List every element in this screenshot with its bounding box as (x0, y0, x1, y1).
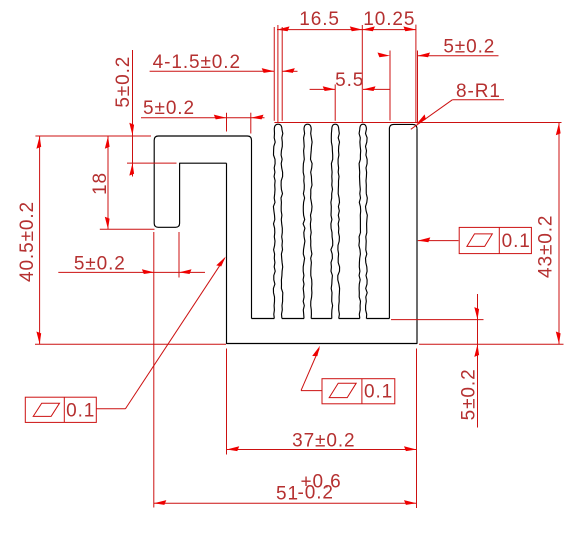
dimension 5±0.2 (right fin width, top right) (378, 37, 499, 123)
svg-text:51: 51 (276, 484, 299, 505)
heatsink clip arm and hook outline (154, 136, 251, 319)
svg-text:10.25: 10.25 (363, 9, 415, 30)
fin 1 (serrated) (273, 124, 282, 318)
dimension 18 (clip hook depth) (90, 136, 155, 229)
svg-text:43±0.2: 43±0.2 (536, 215, 557, 278)
svg-text:5±0.2: 5±0.2 (113, 56, 134, 108)
svg-text:40.5±0.2: 40.5±0.2 (17, 201, 38, 282)
svg-text:18: 18 (90, 172, 111, 195)
svg-text:0.1: 0.1 (364, 381, 393, 402)
fin 3 (serrated) (331, 124, 340, 318)
dimension 5±0.2 (hook width) (58, 232, 205, 508)
channel bottoms (252, 318, 390, 320)
fin 2 (serrated) (303, 124, 312, 318)
dimension 4-1.5±0.2 (fin thickness) (150, 27, 298, 121)
dimension 40.5±0.2 (overall height) (17, 136, 226, 344)
dimension 16.5 (fin1 center to fin4 center) (277, 9, 416, 123)
svg-text:4-1.5±0.2: 4-1.5±0.2 (153, 52, 241, 73)
dimension 51 +0.6/-0.2 (overall width) (154, 472, 417, 505)
dimension 5.5 (fin pitch) (310, 70, 391, 121)
svg-text:5±0.2: 5±0.2 (74, 254, 126, 275)
svg-text:16.5: 16.5 (299, 9, 340, 30)
svg-text:-0.2: -0.2 (298, 483, 334, 504)
flatness callout right (on right side face) (418, 227, 532, 253)
dimension 5±0.2 (base thickness, right) (391, 294, 484, 428)
svg-text:5±0.2: 5±0.2 (143, 98, 195, 119)
svg-text:5±0.2: 5±0.2 (459, 368, 480, 420)
dimension 10.25 (fin4 center to right edge) (362, 9, 416, 123)
svg-text:0.1: 0.1 (502, 231, 531, 252)
svg-text:5.5: 5.5 (335, 70, 364, 91)
svg-text:5±0.2: 5±0.2 (443, 37, 495, 58)
dimension 37±0.2 (base width) (227, 349, 417, 509)
svg-text:8-R1: 8-R1 (456, 81, 501, 102)
fin 4 (serrated) (359, 124, 367, 318)
leader 8-R1 (fin tip radii) (411, 81, 504, 129)
heatsink base plate and left wall edge (227, 129, 418, 344)
flatness callout left (on left wall face) (25, 255, 227, 423)
svg-text:37±0.2: 37±0.2 (292, 430, 355, 451)
svg-text:0.1: 0.1 (66, 400, 95, 421)
dimension 43±0.2 (fin height overall) (274, 123, 563, 345)
dimension 5±0.2 (left wall thickness) (141, 98, 265, 134)
dimension 5±0.2 vertical (clip arm thickness) (113, 50, 176, 177)
flatness callout bottom (on base bottom face) (301, 345, 395, 404)
fin 8 (right outer fin) (389, 124, 417, 318)
